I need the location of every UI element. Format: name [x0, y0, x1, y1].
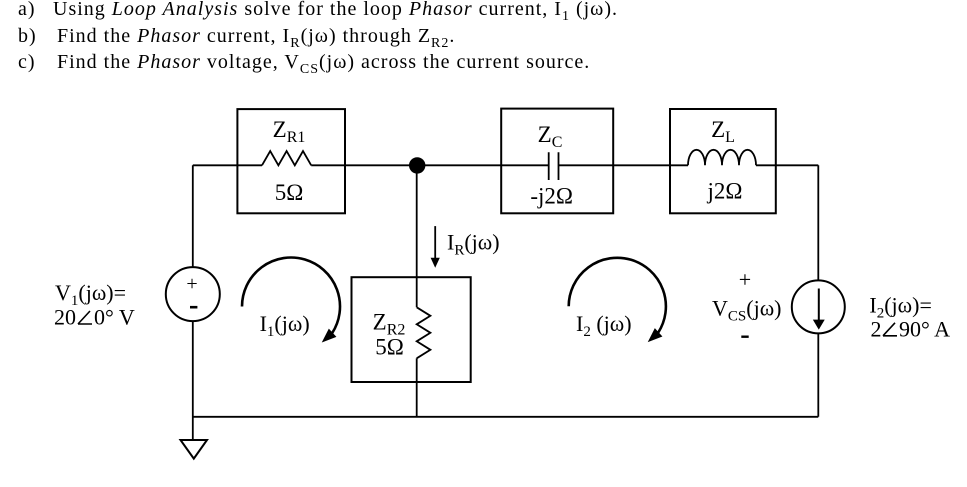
svg-text:IR(jω): IR(jω)	[447, 230, 500, 259]
wire top middle segment	[311, 164, 549, 166]
wire left vertical lower	[192, 321, 194, 440]
ground symbol	[181, 440, 208, 459]
svg-text:5Ω: 5Ω	[275, 180, 304, 205]
wire left vertical upper	[192, 165, 194, 267]
impedance box ZR1	[237, 109, 345, 213]
svg-text:j2Ω: j2Ω	[707, 179, 743, 204]
problem statement line a	[18, 0, 36, 21]
resistor ZR2 zigzag	[417, 307, 431, 358]
angle symbol for V1	[78, 311, 92, 324]
resistor ZR1 zigzag	[262, 151, 311, 165]
svg-text:ZL: ZL	[711, 117, 735, 146]
svg-text:+: +	[739, 267, 751, 292]
loop I1 arrow arc	[242, 258, 340, 334]
loop I1 arrowhead	[323, 330, 335, 341]
loop I2 arrowhead	[649, 329, 661, 340]
wire top right segment	[756, 164, 818, 166]
current source arrow	[815, 289, 823, 328]
current source I2 circle	[792, 280, 845, 333]
problem statement line b	[18, 25, 37, 48]
svg-text:VCS(jω): VCS(jω)	[712, 296, 782, 325]
svg-text:5Ω: 5Ω	[375, 335, 404, 360]
svg-text:20: 20	[54, 305, 76, 330]
impedance box ZL	[670, 109, 776, 213]
capacitor ZC plates	[549, 152, 559, 180]
impedance box ZC	[501, 109, 613, 214]
wire top left segment	[193, 164, 262, 166]
IR branch arrow	[432, 226, 438, 266]
svg-text:2: 2	[871, 316, 882, 341]
wire bottom horizontal	[193, 416, 819, 418]
voltage source V1 circle	[166, 267, 220, 321]
svg-text:-j2Ω: -j2Ω	[530, 184, 573, 209]
problem statement line c	[18, 51, 36, 74]
svg-text:I2 (jω): I2 (jω)	[576, 311, 632, 340]
impedance box ZR2	[352, 277, 471, 382]
svg-text:90° A: 90° A	[899, 316, 950, 341]
svg-text:I1(jω): I1(jω)	[260, 311, 310, 340]
svg-text:ZC: ZC	[538, 122, 563, 151]
wire middle vertical upper	[416, 165, 418, 307]
svg-text:+: +	[186, 273, 197, 295]
wire middle vertical lower	[416, 358, 418, 417]
angle symbol for I2 source	[883, 323, 897, 336]
wire between capacitor and inductor	[559, 164, 689, 166]
svg-text:ZR1: ZR1	[273, 117, 306, 146]
svg-text:0° V: 0° V	[94, 305, 135, 330]
inductor ZL coils	[688, 150, 756, 166]
minus sign below VCS	[741, 336, 748, 338]
wire right vertical upper	[817, 165, 819, 280]
loop I2 arrow arc	[569, 258, 666, 333]
V1 minus sign	[190, 306, 197, 309]
wire right vertical lower	[817, 333, 819, 417]
node junction dot	[409, 157, 425, 173]
